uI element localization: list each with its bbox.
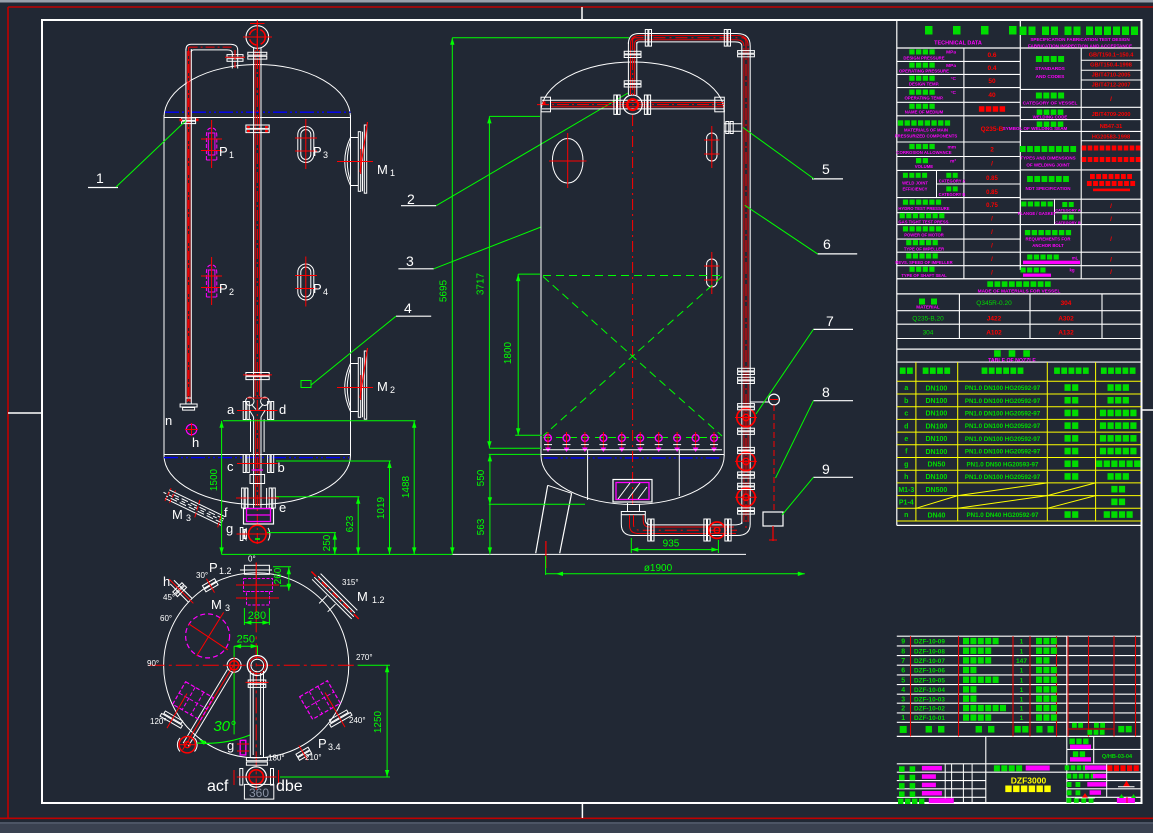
svg-text:mm: mm [947, 145, 956, 150]
section top horizontal pipe run [628, 34, 750, 47]
tech table left half rows [897, 60, 1021, 62]
svg-text:DZF-10-08: DZF-10-08 [914, 648, 945, 655]
svg-text:h: h [163, 574, 170, 589]
svg-text:1: 1 [1020, 687, 1024, 694]
svg-text:acf: acf [207, 778, 229, 795]
left standpipe tangent flange (leader 1 target) [182, 118, 196, 120]
svg-text:/: / [991, 161, 993, 168]
front view manhole M1 [345, 138, 351, 186]
dim 935 horizontal [631, 549, 718, 551]
section internal right capsule upper [707, 133, 717, 161]
tech table header text left [925, 26, 933, 35]
svg-text:563: 563 [476, 518, 487, 535]
svg-text:DZF-10-01: DZF-10-01 [914, 715, 945, 722]
svg-text:DZF-10-03: DZF-10-03 [914, 696, 945, 703]
svg-text:FABRICATION INSPECTION AND ACC: FABRICATION INSPECTION AND ACCEPTANCE [1028, 43, 1132, 48]
svg-text:°C: °C [951, 90, 957, 96]
svg-text:DZF-10-06: DZF-10-06 [914, 668, 945, 675]
strainer lateral dashed line [543, 437, 722, 439]
tech table weld symbol row with overflow label [1020, 130, 1141, 132]
svg-text:P: P [219, 281, 228, 296]
svg-text:SPECIFICATION FABRICATION TE: SPECIFICATION FABRICATION TEST DESIGN [1030, 37, 1130, 42]
svg-text:MPa: MPa [946, 63, 956, 69]
svg-text:NB47-31: NB47-31 [1100, 124, 1122, 130]
tech table standards row [1020, 88, 1141, 90]
frame centering tick left [8, 412, 42, 414]
frame centering tick right [1142, 409, 1153, 411]
title block product name row [994, 765, 1022, 771]
svg-text:JB/T4710-2005: JB/T4710-2005 [1092, 72, 1131, 78]
svg-text:M: M [357, 589, 368, 604]
plan view shell circle [164, 573, 349, 758]
dim 1250 plan [386, 665, 388, 777]
downcomer flange pair mid [738, 368, 755, 371]
plan M3 dashed circle [186, 614, 230, 658]
front view bottom valve manifold [246, 397, 254, 405]
svg-text:280: 280 [248, 610, 266, 622]
nozzle table header separator [897, 361, 1141, 363]
center pipe dome entry flange [246, 125, 269, 128]
svg-text:d: d [904, 423, 908, 430]
svg-text:270°: 270° [356, 653, 373, 662]
svg-text:Q235-B,20: Q235-B,20 [912, 316, 944, 323]
downcomer inlet stub to vessel (leader 5 target) [724, 123, 742, 125]
plan drop pipe down [249, 671, 251, 757]
tech table forging test row [1020, 251, 1141, 253]
tech table small rows left [897, 212, 1021, 214]
svg-text:45°: 45° [163, 593, 175, 602]
front view nozzle P3 [298, 127, 314, 163]
front view nozzle P1 [206, 128, 216, 160]
svg-text:MPa: MPa [946, 50, 956, 56]
center pipe mid flange pair [246, 373, 269, 376]
plan nozzle P12 at 30deg [200, 575, 220, 596]
leader 6 [745, 205, 818, 254]
tech table full width band [897, 278, 1141, 280]
tech table category of vessel row [1020, 106, 1141, 108]
plan inclined pipe to 30deg nozzle [180, 664, 236, 751]
downcomer valve V2 [737, 452, 755, 470]
cross a-d flanges [243, 402, 246, 420]
svg-text:1: 1 [1020, 668, 1024, 675]
svg-text:1: 1 [1020, 648, 1024, 655]
svg-text:PN1.0 DN100 HG20592-97: PN1.0 DN100 HG20592-97 [965, 449, 1041, 456]
tech table welding joint row [1020, 169, 1141, 171]
svg-text:SYMBOL OF WELDING SEAM: SYMBOL OF WELDING SEAM [1003, 126, 1068, 131]
nozzle g stub left [240, 528, 243, 541]
front view nozzle M3 inclined pipe [160, 484, 227, 529]
plan nozzle at 240deg magenta box [300, 681, 341, 720]
svg-text:240°: 240° [349, 716, 366, 725]
outlet valve on horizontal run [709, 522, 725, 538]
svg-text:9: 9 [822, 461, 830, 477]
plan 30deg end fitting [179, 737, 195, 753]
svg-text:b: b [278, 460, 285, 475]
tech table welding code row [1020, 119, 1141, 121]
front view nozzle P2 [206, 265, 216, 297]
bottom window strip [0, 822, 1153, 833]
svg-text:b: b [904, 398, 908, 405]
svg-text:50: 50 [988, 78, 996, 85]
svg-text:4: 4 [901, 687, 905, 694]
svg-text:5695: 5695 [439, 279, 450, 302]
front view vessel vertical centerline [256, 23, 258, 100]
section internal right capsule lower [707, 259, 717, 287]
dim 250 plan [234, 645, 258, 647]
vessel support leg [536, 485, 548, 553]
svg-text:4: 4 [323, 287, 328, 297]
svg-text:TABLE OF NOZZLE: TABLE OF NOZZLE [988, 358, 1036, 364]
svg-text:DN100: DN100 [926, 411, 948, 418]
svg-text:FLANGE / GASKET: FLANGE / GASKET [1018, 211, 1057, 216]
svg-text:kg: kg [1069, 268, 1074, 273]
svg-text:AND CODES: AND CODES [1036, 74, 1066, 80]
tech table right half divider vertical [1080, 48, 1082, 279]
svg-text:a: a [227, 402, 235, 417]
svg-text:1488: 1488 [401, 475, 412, 498]
svg-text:OPERATING PRESSURE: OPERATING PRESSURE [899, 69, 949, 74]
svg-text:7: 7 [826, 313, 834, 329]
svg-text:/: / [1110, 216, 1112, 223]
bottom elbow g circle [248, 525, 266, 543]
discharge box f (magenta) [244, 509, 274, 525]
svg-text:DN50: DN50 [927, 461, 945, 468]
dim extension a-d level [223, 420, 416, 422]
svg-text:/: / [1110, 96, 1112, 103]
leader 7 [756, 329, 813, 414]
svg-text:1: 1 [901, 715, 905, 722]
cross e flanges [242, 488, 245, 508]
title block band dividers [985, 736, 987, 763]
svg-text:J422: J422 [987, 316, 1002, 323]
section view vertical centerline [632, 115, 634, 505]
svg-text:1: 1 [1020, 715, 1024, 722]
strainer nozzles row [544, 432, 552, 452]
svg-text:147: 147 [1016, 658, 1027, 665]
svg-text:4: 4 [404, 300, 412, 316]
svg-text:MADE OF MATERIALS FOR VESSEL: MADE OF MATERIALS FOR VESSEL [978, 288, 1061, 294]
bottom outlet pipe elbow [627, 503, 629, 512]
svg-text:1: 1 [390, 168, 395, 178]
leader 4 with target box [311, 316, 396, 385]
section view vessel shell [541, 62, 724, 112]
downcomer valve V1 [737, 408, 755, 426]
svg-text:DN100: DN100 [926, 398, 948, 405]
svg-text:M: M [211, 597, 222, 612]
svg-text:Q/HB-03-04: Q/HB-03-04 [1102, 754, 1133, 760]
svg-text:DZF-10-04: DZF-10-04 [914, 687, 945, 694]
svg-text:GB/T150.1~150.4: GB/T150.1~150.4 [1089, 53, 1135, 59]
svg-text:PN1.0 DN100 HG20592-97: PN1.0 DN100 HG20592-97 [965, 385, 1041, 392]
svg-text:e: e [904, 436, 908, 443]
svg-text:2: 2 [390, 385, 395, 395]
svg-text:n: n [904, 512, 908, 519]
plan left elbow fitting [227, 658, 241, 672]
svg-text:40: 40 [988, 92, 996, 99]
front view nozzle P4 [298, 264, 314, 300]
plan top nozzle magenta body [244, 579, 273, 606]
svg-text:c: c [904, 411, 908, 418]
svg-text:3: 3 [225, 603, 230, 613]
svg-text:PN1.0 DN100 HG20592-97: PN1.0 DN100 HG20592-97 [965, 398, 1041, 405]
svg-text:DZF-10-07: DZF-10-07 [914, 658, 945, 665]
svg-text:GAS TIGHT TEST PRESS.: GAS TIGHT TEST PRESS. [898, 219, 949, 224]
dim 5695 top extension [452, 37, 629, 39]
dim 1500 vertical [221, 421, 223, 555]
svg-text:STANDARDS: STANDARDS [1035, 66, 1066, 72]
svg-text:6: 6 [823, 236, 831, 252]
svg-text:M: M [377, 379, 388, 394]
svg-text:c: c [227, 459, 234, 474]
svg-text:P: P [219, 144, 228, 159]
front view nozzle h symbol [186, 424, 196, 434]
title block left signature rows [899, 766, 915, 772]
front view top tangent white seam [164, 117, 351, 119]
svg-text:3.4: 3.4 [328, 742, 341, 752]
svg-text:g: g [226, 521, 233, 536]
leader 3 [434, 227, 541, 269]
front view bottom tangent blue line [164, 457, 349, 459]
strainer support plate line [543, 449, 722, 451]
svg-text:3: 3 [323, 150, 328, 160]
svg-text:7: 7 [901, 658, 905, 665]
svg-text:h: h [192, 435, 199, 450]
svg-text:CATEGORY A: CATEGORY A [1055, 208, 1080, 213]
tech table weld joint efficiency row [897, 197, 1021, 199]
svg-text:DESIGN PRESSURE: DESIGN PRESSURE [903, 55, 944, 60]
svg-text:1.2: 1.2 [372, 595, 385, 605]
nozzle table yellow grid [897, 380, 1141, 382]
svg-text:Q345R-0.20: Q345R-0.20 [976, 300, 1012, 307]
center pipe upper flange pair [248, 52, 267, 55]
dim 563 vertical [489, 504, 491, 554]
section view bottom tangent blue line [544, 457, 720, 459]
svg-text:5: 5 [822, 161, 830, 177]
left standpipe top elbow run [186, 44, 230, 50]
svg-text:DESIGN TEMP.: DESIGN TEMP. [909, 82, 939, 87]
svg-text:P: P [313, 144, 322, 159]
svg-text:Q235-B: Q235-B [981, 126, 1004, 133]
nozzle table title [994, 350, 1030, 357]
svg-text:360: 360 [249, 786, 269, 800]
svg-text:POWER OF MOTOR: POWER OF MOTOR [904, 233, 943, 238]
dim 1019 vertical [389, 461, 391, 554]
dim extension c-b level [276, 460, 391, 462]
svg-text:A102: A102 [986, 329, 1002, 336]
svg-text:0.85: 0.85 [986, 176, 998, 182]
svg-text:WELDING CODE: WELDING CODE [1033, 114, 1068, 119]
internal support plates [587, 450, 589, 500]
title block main horizontals [897, 763, 1141, 765]
left stub flange pair [227, 55, 243, 58]
svg-text:9: 9 [901, 639, 905, 646]
svg-text:2: 2 [407, 191, 415, 207]
leader 2 [436, 93, 628, 206]
svg-text:M: M [377, 162, 388, 177]
svg-text:180°: 180° [268, 754, 285, 763]
svg-text:1: 1 [1020, 677, 1024, 684]
svg-text:0°: 0° [248, 555, 256, 564]
section internal oval sightport [552, 139, 583, 184]
svg-text:2: 2 [901, 706, 905, 713]
svg-text:PRESSURIZED COMPONENTS: PRESSURIZED COMPONENTS [895, 134, 958, 139]
svg-text:PN1.0 DN100 HG20592-97: PN1.0 DN100 HG20592-97 [965, 423, 1041, 430]
svg-text:OPERATING TEMP.: OPERATING TEMP. [905, 96, 944, 101]
svg-text:M: M [172, 507, 183, 522]
tech table header text right [1020, 27, 1027, 36]
plan manway M12 at 315deg [299, 568, 363, 632]
plan drop pipe flange pair [248, 680, 266, 683]
svg-text:OF WELDING JOINT: OF WELDING JOINT [1026, 163, 1070, 168]
svg-text:/: / [1110, 203, 1112, 210]
svg-text:m³: m³ [950, 158, 956, 164]
title block right rows [1065, 765, 1088, 770]
svg-text:/: / [1110, 257, 1112, 264]
plan g nozzle magenta [240, 740, 246, 755]
svg-text:304: 304 [923, 329, 934, 336]
svg-text:MATERIAL: MATERIAL [916, 304, 940, 309]
svg-text:DN100: DN100 [926, 449, 948, 456]
dim datum line bottom (white part) [452, 553, 746, 555]
tech table paint row [1020, 265, 1141, 267]
plan nozzle at 210deg small [293, 742, 314, 764]
plan bottom outlet flange assembly [246, 758, 267, 761]
plan center fitting ring [247, 656, 267, 676]
downcomer valve V3 [737, 488, 755, 506]
svg-text:f: f [224, 505, 228, 520]
svg-text:PN1.0 DN40 HG20592-97: PN1.0 DN40 HG20592-97 [967, 512, 1039, 519]
svg-text:P1-4: P1-4 [899, 499, 914, 506]
svg-text:TYPE OF IMPELLER: TYPE OF IMPELLER [904, 246, 944, 251]
section riser pipe to top [627, 42, 629, 95]
left standpipe drop stub to head [230, 44, 238, 68]
svg-text:JB/T4712-2007: JB/T4712-2007 [1092, 82, 1131, 88]
frame centering tick top [581, 7, 583, 20]
tech table transport row [1020, 198, 1141, 200]
svg-text:d: d [279, 402, 286, 417]
elbow up to downcomer [737, 524, 750, 536]
svg-text:PN1.0 DN100 HG20592-97: PN1.0 DN100 HG20592-97 [965, 410, 1041, 417]
svg-text:2: 2 [229, 287, 234, 297]
svg-text:°C: °C [951, 76, 957, 82]
front view center dip pipe [253, 48, 255, 398]
svg-text:8: 8 [822, 384, 830, 400]
distributor center tee fitting [623, 95, 642, 114]
svg-text:PN1.0 DN100 HG20592-97: PN1.0 DN100 HG20592-97 [965, 474, 1041, 481]
svg-text:REVS. SPEED OF IMPELLER: REVS. SPEED OF IMPELLER [895, 260, 952, 265]
tech table weight row [1021, 268, 1046, 273]
svg-text:DN100: DN100 [926, 423, 948, 430]
svg-text:a: a [904, 385, 908, 392]
svg-text:30°: 30° [213, 718, 236, 735]
frame centering tick bottom [581, 803, 583, 818]
svg-text:1: 1 [229, 150, 234, 160]
svg-text:HG20583-1998: HG20583-1998 [1092, 134, 1130, 140]
svg-text:6: 6 [901, 668, 905, 675]
front view bottom seam white [164, 454, 351, 456]
svg-text:935: 935 [663, 539, 680, 550]
svg-text:PN1.0 DN100 HG20592-97: PN1.0 DN100 HG20592-97 [965, 436, 1041, 443]
svg-text:REQUIREMENTS FOR: REQUIREMENTS FOR [1026, 237, 1072, 242]
dim 1488 vertical [413, 421, 415, 555]
center pipe top ball fitting [246, 26, 269, 49]
BOM red verticals [910, 636, 912, 736]
svg-text:0.6: 0.6 [987, 52, 996, 59]
svg-text:P: P [209, 560, 218, 575]
section view bottom seam white [541, 454, 724, 456]
svg-text:CATEGORY A: CATEGORY A [939, 179, 966, 184]
svg-text:g: g [904, 461, 908, 468]
dim 623 vertical [357, 497, 359, 555]
svg-text:315°: 315° [342, 578, 359, 587]
svg-text:A132: A132 [1058, 329, 1074, 336]
svg-text:g: g [227, 738, 234, 753]
svg-text:DN500: DN500 [926, 487, 948, 494]
svg-text:P: P [313, 281, 322, 296]
svg-text:MATERIALS OF MAIN: MATERIALS OF MAIN [904, 127, 948, 132]
svg-text:EFFICIENCY: EFFICIENCY [903, 187, 928, 192]
svg-text:NDT SPECIFICATION: NDT SPECIFICATION [1026, 186, 1071, 191]
svg-text:mL: mL [1072, 256, 1079, 261]
svg-text:90°: 90° [147, 659, 159, 668]
media bed dashed cross [543, 275, 722, 277]
svg-text:60°: 60° [160, 614, 172, 623]
title block left signature columns [944, 764, 946, 803]
svg-text:n: n [165, 413, 172, 428]
plan nozzle at 120deg magenta box [173, 682, 214, 721]
plan view crosshair centerlines [149, 664, 358, 666]
svg-text:GB/T150.4-1998: GB/T150.4-1998 [1090, 63, 1132, 69]
svg-text:1800: 1800 [503, 341, 514, 364]
svg-text:1500: 1500 [209, 468, 220, 491]
dim 3717 vertical [488, 116, 490, 448]
svg-text:CATEGORY B: CATEGORY B [939, 192, 966, 197]
svg-text:30°: 30° [196, 571, 208, 580]
tech table flange AB rows [1020, 224, 1141, 226]
svg-text:DN100: DN100 [926, 436, 948, 443]
svg-text:CATEGORY B: CATEGORY B [1055, 220, 1081, 225]
leader 9 [782, 477, 813, 515]
left standpipe bottom flange n [180, 404, 197, 407]
svg-text:e: e [279, 500, 286, 515]
tech table label-value divider [963, 48, 965, 279]
svg-text:0.75: 0.75 [986, 203, 998, 209]
nozzle table bottom border [897, 524, 1141, 526]
tech table outer verticals [896, 20, 898, 525]
svg-text:ø1900: ø1900 [644, 563, 673, 574]
svg-text:8: 8 [901, 648, 905, 655]
dim 5695 vertical [451, 38, 453, 555]
svg-text:DN100: DN100 [926, 474, 948, 481]
svg-text:250: 250 [322, 534, 333, 551]
dim 280 plan [244, 622, 269, 624]
svg-text:3: 3 [901, 696, 905, 703]
dim 250 vertical [334, 533, 336, 555]
leg centerline tick [545, 541, 547, 568]
svg-text:/: / [1110, 236, 1112, 243]
dim extension g level [267, 532, 336, 534]
top window strip [0, 0, 1153, 3]
title block project rows right [1067, 748, 1141, 750]
svg-text:3: 3 [406, 253, 414, 269]
svg-text:0.85: 0.85 [986, 190, 998, 196]
svg-text:ANCHOR BOLT: ANCHOR BOLT [1032, 243, 1064, 248]
red sheet border [8, 6, 1153, 8]
nozzle table column headers [900, 368, 913, 374]
svg-text:DZF-10-02: DZF-10-02 [914, 706, 945, 713]
plan nozzle h at 45deg [165, 575, 198, 608]
svg-text:550: 550 [476, 469, 487, 486]
